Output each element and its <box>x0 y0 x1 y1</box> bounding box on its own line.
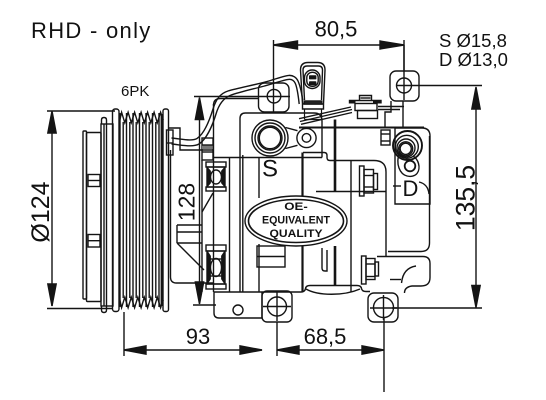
body main block <box>213 99 424 295</box>
coil housing <box>169 128 214 283</box>
label 6PK <box>121 83 149 100</box>
OE stamp <box>245 196 347 246</box>
svg-text:Ø124: Ø124 <box>27 181 55 242</box>
D label <box>393 176 429 201</box>
left upper bolt <box>206 162 226 191</box>
pulley clutch plate <box>87 133 102 302</box>
rear hex fitting <box>381 130 390 145</box>
svg-text:EQUIVALENT: EQUIVALENT <box>262 215 330 227</box>
dimension 68,5 <box>277 318 384 392</box>
pulley rib band <box>119 112 163 307</box>
svg-text:OE-: OE- <box>284 201 308 213</box>
svg-text:S: S <box>262 156 278 183</box>
pulley clutch front disc <box>83 131 87 299</box>
S port flange <box>252 120 316 156</box>
svg-text:QUALITY: QUALITY <box>270 228 324 240</box>
pulley back flange <box>163 109 169 312</box>
coil terminal block <box>167 130 174 155</box>
dimension 124 <box>27 111 115 309</box>
bottom bar <box>214 292 262 318</box>
dimension 80,5 <box>274 17 405 113</box>
svg-text:80,5: 80,5 <box>315 17 358 42</box>
bottom-right lug <box>368 293 398 322</box>
svg-text:S Ø15,8: S Ø15,8 <box>439 30 507 51</box>
dimension 135,5 <box>392 86 482 309</box>
title RHD - only <box>31 18 152 43</box>
svg-text:6PK: 6PK <box>121 83 149 100</box>
top-left lug <box>259 83 290 112</box>
right lower bolt <box>362 256 379 284</box>
svg-text:128: 128 <box>174 183 200 221</box>
svg-text:68,5: 68,5 <box>304 324 347 349</box>
connector fitting <box>301 63 326 120</box>
right upper bolt <box>360 166 378 196</box>
svg-text:RHD - only: RHD - only <box>31 18 152 43</box>
svg-text:D: D <box>403 176 419 201</box>
label S diameter <box>439 30 507 51</box>
pulley front flange <box>102 109 120 313</box>
front bracket ribs <box>177 138 213 292</box>
label plate <box>257 246 285 267</box>
left lower bolt <box>206 245 226 289</box>
rear head <box>393 128 430 204</box>
bottom-left lug <box>262 291 292 322</box>
label D diameter <box>439 49 508 70</box>
right bracket <box>377 136 430 293</box>
S plate <box>240 113 322 158</box>
svg-text:135,5: 135,5 <box>451 165 481 231</box>
dimension 93 <box>124 312 262 356</box>
pulley hub drum <box>101 124 113 306</box>
hose bundle <box>172 75 405 145</box>
svg-text:D Ø13,0: D Ø13,0 <box>439 49 508 70</box>
relief valve <box>350 96 382 119</box>
top-right bracket arm <box>385 101 403 127</box>
top-right lug <box>390 45 420 101</box>
S label <box>262 156 278 183</box>
dimension 128 <box>174 97 291 306</box>
svg-text:93: 93 <box>186 324 210 349</box>
